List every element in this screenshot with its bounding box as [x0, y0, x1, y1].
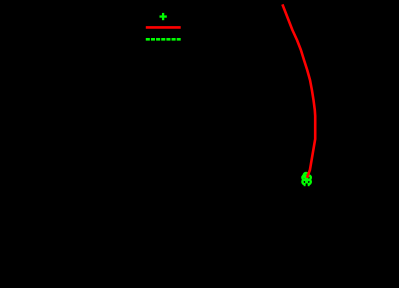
green feet at bottom of marker cluster	[304, 185, 306, 186]
legend line sample: red solid line	[146, 26, 181, 29]
legend line sample: green dashed line	[146, 38, 181, 41]
red trajectory curve	[282, 4, 315, 177]
green open-circle markers cluster at trajectory end	[302, 173, 310, 184]
black gap slot at bottom of marker cluster	[306, 183, 308, 186]
legend point sample: green plus	[160, 13, 167, 20]
